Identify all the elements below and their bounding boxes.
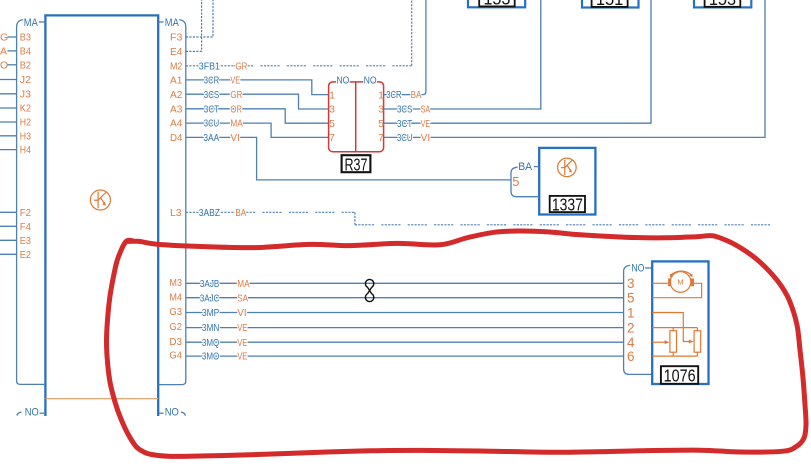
svg-text:G2: G2 (169, 321, 182, 333)
svg-text:E4: E4 (170, 46, 183, 58)
svg-text:E3: E3 (20, 235, 31, 247)
svg-text:NO: NO (165, 406, 179, 418)
svg-text:J2: J2 (20, 74, 31, 86)
svg-text:6: 6 (627, 349, 635, 364)
svg-text:3AA: 3AA (203, 133, 219, 144)
pin labels F3 E4 M2 A1 A2 A3 A4 D4 (right connector) (170, 32, 183, 144)
svg-text:BA: BA (411, 90, 422, 101)
wire E4 dashed to top (186, 0, 202, 51)
connector NO bracket at 1076 (624, 265, 653, 374)
pin labels M3 M4 G3 G2 D3 G4 (right connector) (169, 277, 182, 362)
svg-text:3CS: 3CS (397, 105, 413, 116)
svg-text:J3: J3 (20, 88, 31, 100)
wiper wire pin 4 to left potentiometer (652, 340, 669, 344)
svg-text:R37: R37 (345, 155, 368, 175)
connector MA (right) label (158, 17, 179, 29)
svg-text:O: O (0, 59, 8, 71)
svg-text:VI: VI (230, 133, 239, 144)
svg-text:B2: B2 (20, 59, 31, 71)
svg-text:3: 3 (329, 104, 335, 116)
pin labels F2 F4 E3 E2 (left connector) (20, 207, 31, 261)
wire stubs into left connector pins (0, 37, 17, 150)
svg-text:H4: H4 (20, 144, 31, 156)
svg-text:1: 1 (627, 305, 635, 320)
svg-text:3MO: 3MO (202, 352, 220, 363)
svg-text:1: 1 (378, 89, 384, 101)
label box R37 (342, 155, 371, 175)
connector R37 outline (329, 82, 384, 152)
wire 3AJC-SA (pin M4 to 1076 pin 5) (186, 293, 624, 304)
connector R37 NO labels (336, 75, 376, 87)
svg-text:3MQ: 3MQ (202, 338, 220, 349)
pin labels B3 B4 B2 J2 J3 K2 H2 H3 H4 (left connector) (20, 32, 31, 157)
wire 3MO-VE (pin G4 to 1076 pin 6) (186, 352, 624, 363)
svg-text:B3: B3 (20, 32, 31, 44)
svg-text:A3: A3 (170, 103, 183, 115)
svg-text:B4: B4 (20, 46, 31, 58)
svg-text:GR: GR (235, 61, 247, 72)
pin label L3 (right connector) (170, 207, 182, 219)
svg-text:A1: A1 (170, 75, 183, 87)
wire 3CS-SA (R37 pin 3 up to component 151) (384, 0, 541, 116)
svg-text:M2: M2 (170, 60, 183, 72)
svg-text:MA: MA (237, 279, 250, 290)
svg-text:F2: F2 (20, 207, 31, 219)
wire 3FB1-GR (pin M2, dashed) (186, 0, 412, 72)
svg-text:3CS: 3CS (204, 90, 220, 101)
svg-text:OR: OR (230, 104, 242, 115)
svg-text:A4: A4 (170, 118, 183, 130)
svg-text:153: 153 (709, 0, 736, 9)
connector NO (bottom right of box K) (159, 406, 185, 418)
1076 pin numbers 3 5 1 2 4 6 (627, 276, 635, 364)
connector MA (right) bracket (158, 20, 186, 385)
svg-text:E2: E2 (20, 249, 31, 261)
svg-text:3CR: 3CR (204, 76, 219, 87)
svg-text:MA: MA (230, 119, 243, 130)
svg-text:NO: NO (336, 75, 349, 87)
svg-text:3CU: 3CU (397, 133, 412, 144)
svg-text:5: 5 (378, 118, 384, 130)
svg-text:VE: VE (230, 76, 240, 87)
wire 3ABZ-BA (pin L3, dashed) (186, 208, 773, 225)
symbol K in circle (component 1337) (558, 158, 577, 177)
red hand-drawn annotation loop (107, 231, 807, 456)
component box 153 (top left, cut off) (468, 0, 525, 9)
component box 153b (top right, cut off) (694, 0, 751, 9)
svg-text:MA: MA (24, 17, 39, 29)
svg-text:F3: F3 (170, 32, 183, 44)
svg-text:1337: 1337 (552, 194, 583, 214)
svg-text:7: 7 (329, 132, 335, 144)
component box K (UCH body control unit) (45, 15, 158, 416)
svg-text:M: M (677, 278, 683, 287)
svg-text:A2: A2 (170, 89, 183, 101)
cut wire colour letters G A O (0, 32, 8, 72)
wire 3CS-GR (pin A2 to R37 pin 3) (186, 90, 329, 109)
svg-text:3MP: 3MP (202, 308, 220, 319)
connector NO (bottom left of box K) (17, 406, 44, 418)
svg-text:H2: H2 (20, 117, 31, 129)
svg-text:BA: BA (235, 208, 246, 219)
svg-text:3MN: 3MN (202, 323, 219, 334)
svg-text:G: G (0, 32, 8, 44)
svg-text:K2: K2 (20, 103, 31, 115)
svg-text:3FB1: 3FB1 (199, 61, 221, 72)
svg-text:NO: NO (631, 263, 644, 275)
wire pin 2 to potentiometer tops (652, 328, 697, 331)
svg-text:VE: VE (237, 352, 247, 363)
svg-text:151: 151 (596, 0, 624, 9)
label box 1076 (661, 365, 698, 385)
svg-text:1: 1 (329, 89, 335, 101)
wire 3MP-VI (pin G3 to 1076 pin 1) (186, 308, 624, 319)
wire 3MQ-VE (pin D3 to 1076 pin 4) (186, 338, 624, 349)
svg-text:3: 3 (378, 104, 384, 116)
svg-text:1076: 1076 (664, 365, 696, 385)
svg-text:3ABZ: 3ABZ (199, 208, 220, 219)
R37 pin numbers 1 3 5 7 (329, 89, 384, 144)
svg-text:3: 3 (627, 276, 635, 291)
svg-text:VI: VI (237, 308, 246, 319)
svg-text:A: A (0, 46, 7, 58)
potentiometer track left (resistor) (670, 331, 677, 353)
svg-text:VE: VE (237, 323, 247, 334)
svg-text:D4: D4 (170, 132, 183, 144)
svg-text:VI: VI (421, 133, 431, 144)
twisted-pair symbol on wires 3AJB/3AJC (365, 279, 373, 301)
svg-text:NO: NO (364, 75, 377, 87)
wire 3MN-VE (pin G2 to 1076 pin 2) (186, 323, 624, 334)
svg-text:G4: G4 (169, 350, 182, 362)
wire pin 6 to potentiometer bottoms (652, 352, 697, 356)
svg-text:M4: M4 (169, 291, 182, 303)
svg-text:G3: G3 (169, 306, 182, 318)
svg-text:5: 5 (329, 118, 335, 130)
svg-text:VE: VE (421, 119, 431, 130)
connector MA (left) label (24, 17, 46, 29)
component box 1337 (539, 148, 595, 215)
wire stubs into left connector pins F2-E2 (0, 212, 17, 254)
svg-text:3AJC: 3AJC (200, 293, 219, 304)
component box 151 (top middle, cut off) (582, 0, 639, 9)
svg-text:5: 5 (627, 291, 635, 306)
svg-text:SA: SA (421, 105, 431, 116)
svg-text:NO: NO (25, 406, 39, 418)
motor symbol M in 1076 (668, 271, 694, 292)
wire 3AA-VI (pin D4 to component 1337 pin 5) (186, 133, 511, 180)
component box 1076 (652, 261, 708, 384)
svg-text:VE: VE (237, 338, 247, 349)
svg-text:M3: M3 (169, 277, 182, 289)
symbol K in circle (component K) (90, 190, 110, 210)
svg-text:D3: D3 (169, 336, 182, 348)
svg-text:3CU: 3CU (204, 119, 219, 130)
svg-text:MA: MA (165, 17, 180, 29)
wire 3CR-VE (pin A1 to R37 pin 1) (186, 76, 329, 95)
connector NO label at 1076 (631, 263, 652, 275)
wire 3CU-MA (pin A4 to R37 pin 7) (186, 119, 329, 138)
potentiometer track right (resistor) (694, 331, 701, 353)
connector MA (left) bracket (17, 20, 46, 385)
svg-text:2: 2 (627, 320, 635, 335)
wire 3CU-VI (R37 pin 7 across to right) (384, 0, 765, 144)
svg-text:3CT: 3CT (204, 104, 219, 115)
svg-text:3CT: 3CT (397, 119, 412, 130)
wire 3AJB-MA (pin M3 to 1076 pin 3) (186, 279, 624, 290)
svg-text:BA: BA (518, 161, 533, 173)
wire 3CR-BA (R37 pin 1 up to component 153) (384, 0, 426, 101)
wire 3CT-OR (pin A3 to R37 pin 5) (186, 104, 329, 123)
wire F3 dashed to top (186, 0, 213, 37)
label box 1337 (550, 194, 585, 214)
svg-text:153: 153 (483, 0, 510, 9)
motor wiring inside 1076 (652, 283, 701, 297)
svg-text:H3: H3 (20, 130, 31, 142)
svg-text:F4: F4 (20, 221, 31, 233)
svg-text:L3: L3 (170, 207, 182, 219)
svg-text:SA: SA (237, 293, 248, 304)
connector bracket BA/5 at 1337 (511, 161, 539, 197)
orange separator line inside component K (45, 398, 158, 400)
svg-text:7: 7 (378, 132, 384, 144)
svg-text:GR: GR (230, 90, 242, 101)
svg-text:3AJB: 3AJB (200, 279, 220, 290)
svg-text:4: 4 (627, 335, 635, 350)
wiper wire pin 1 to right potentiometer (652, 313, 693, 344)
svg-text:5: 5 (512, 174, 519, 189)
svg-text:3CR: 3CR (386, 90, 401, 101)
wire 3CT-VE (R37 pin 5 up to component 153) (384, 0, 651, 130)
